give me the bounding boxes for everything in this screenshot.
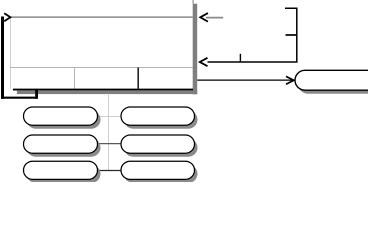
shadow under big box (bottom) [17,91,197,94]
tick on bracket arrow [239,54,241,62]
thin gray line above bar [192,0,194,4]
feedback wire: left vertical segment [1,17,4,99]
row1 connector [96,116,123,118]
stadium shadow [298,74,368,94]
pill B3 [121,161,195,179]
pill B1 [121,107,195,125]
feedback wire: bottom horizontal segment [1,97,37,99]
stadium [295,70,368,90]
pill A3 shadow [27,165,101,183]
vertical connector from box to pills [108,94,110,171]
wire: gray input line across box top [10,16,192,18]
arrowhead left-pointing into bar (top) [200,13,208,22]
queue strip top line [10,67,193,69]
big box bottom edge [13,89,193,91]
pill A2 shadow [27,139,101,157]
queue divider 2 [137,68,139,89]
arrowhead right-pointing into stadium [286,76,294,84]
pill A3 [24,161,98,179]
row3 connector [96,170,123,172]
pill A2 [24,135,98,153]
pill A1 shadow [27,111,101,129]
bracket middle stub [286,34,297,36]
row2 connector [96,143,123,145]
pill B2 shadow [124,139,198,157]
big box left edge [10,17,12,89]
arrowhead left-pointing into bar (middle) [200,58,208,66]
pill B2 [121,135,195,153]
feedback wire: stub up to box bottom [35,89,38,99]
bracket wire from top right into bar [208,8,297,62]
pill B3 shadow [124,165,198,183]
queue divider 1 [74,68,76,89]
pill B1 shadow [124,111,198,129]
arrowhead right-pointing at box top-left [4,13,10,21]
wire to stadium [197,79,292,81]
pill A1 [24,107,98,125]
wire: gray stub right of bar [206,17,223,19]
shadow bar right of big box [193,4,198,95]
